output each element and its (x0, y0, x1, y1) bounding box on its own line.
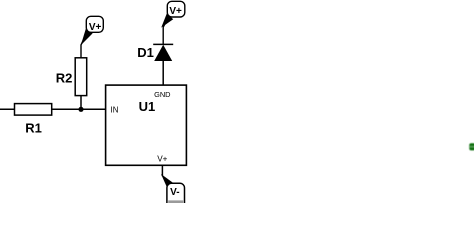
wire U1 V+ pin down to V- flag (161, 165, 163, 176)
green marker icon at right edge (469, 143, 474, 150)
svg-text:D1: D1 (137, 45, 154, 60)
svg-text:V+: V+ (157, 155, 167, 164)
supply flag V+ (left, above R2) (81, 16, 104, 45)
svg-text:V+: V+ (169, 6, 182, 17)
resistor R2 (56, 58, 87, 96)
wire diode anode to U1 GND pin (162, 61, 164, 86)
svg-text:U1: U1 (139, 99, 156, 114)
wire R2 bottom to junction (80, 96, 82, 110)
svg-text:R1: R1 (25, 121, 42, 136)
node junction dot (78, 107, 83, 112)
svg-text:V+: V+ (89, 22, 102, 33)
IC U1 (106, 85, 187, 165)
svg-text:GND: GND (154, 90, 170, 99)
diode D1 (137, 44, 173, 61)
resistor R1 (15, 104, 52, 136)
supply flag V+ (top, above D1) (161, 1, 185, 27)
wire diode cathode up to supply flag (163, 17, 168, 44)
svg-text:R2: R2 (56, 71, 73, 86)
wire R2 top up to supply flag (81, 32, 88, 59)
wire main horizontal net from left edge to U1 IN (0, 108, 106, 110)
supply flag V- (bottom) (161, 174, 185, 207)
svg-text:IN: IN (111, 105, 119, 114)
svg-text:V-: V- (170, 187, 179, 198)
